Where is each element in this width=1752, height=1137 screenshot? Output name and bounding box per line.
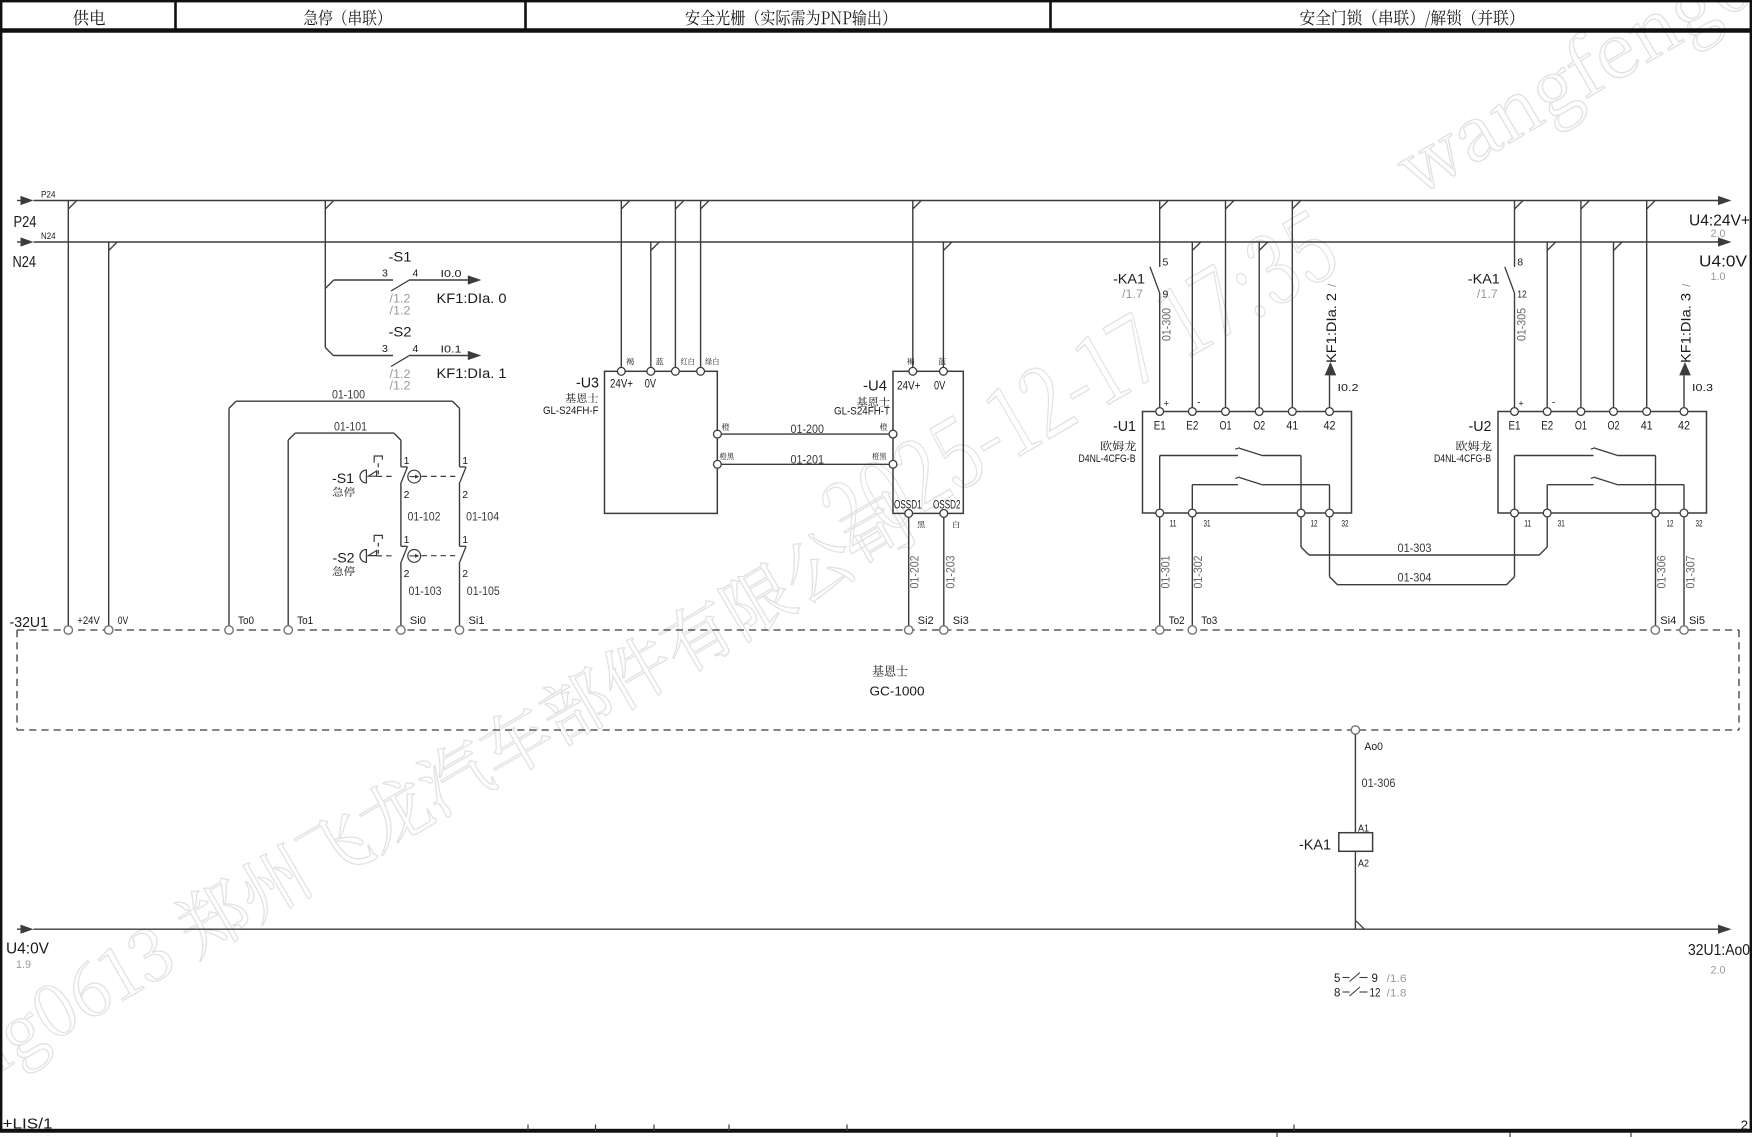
terminal Si1 [455,615,484,634]
switch S1 e-stop contact ch1 (1-2) [401,455,410,501]
node footer location +LIS/1 [3,1117,53,1133]
svg-text:01-102: 01-102 [408,510,441,524]
terminal +24V [64,615,100,634]
wire S1 aux row [325,280,393,289]
svg-text:1: 1 [462,534,468,546]
pin U1 E2 [1186,396,1201,432]
node KF1:DIa.3 arrow I0.3 [1678,283,1714,408]
wire 01-200 [721,422,889,436]
switch S1 aux contact 3-4 [382,249,419,292]
label U4 pin names [897,381,946,393]
svg-text:-S2: -S2 [333,549,355,565]
svg-text:01-304: 01-304 [1398,571,1432,585]
label U4 type GL-S24FH-T [834,405,890,417]
pin U4 orange [889,430,897,438]
svg-text:12: 12 [1517,289,1527,301]
wire N24 supply rail [34,241,1719,243]
door lock U1 body [1143,412,1352,514]
wire 01-104 [460,484,500,546]
terminal To3 [1188,615,1217,634]
svg-text:01-103: 01-103 [409,584,442,598]
svg-text:A1: A1 [1358,823,1369,835]
wire KA1 contact riser U2 from P24 [1515,201,1524,267]
svg-text:-: - [1552,396,1556,408]
wire U3 green-white feeder from P24 [701,201,710,368]
svg-text:-S2: -S2 [389,324,412,340]
wire 0V return rail [34,928,1719,930]
svg-text:N24: N24 [41,231,56,242]
pin U1 31 [1188,509,1210,528]
terminal To0 [225,615,254,634]
svg-text:01-101: 01-101 [334,419,367,433]
pin U2 11 [1511,509,1532,528]
svg-text:-U1: -U1 [1113,419,1136,435]
svg-text:P24: P24 [41,190,56,201]
svg-text:0V: 0V [118,615,129,627]
wire U2 41 feeder from P24 [1647,201,1656,408]
svg-text:KF1:DIa. 3: KF1:DIa. 3 [1678,293,1694,363]
svg-text:To1: To1 [297,615,313,627]
svg-text:2: 2 [1741,1118,1748,1133]
label U3 designator [576,375,599,391]
wire 01-306 Ao0 to coil A1 [1355,734,1395,833]
pin U2 31 [1543,509,1564,528]
svg-text:-S1: -S1 [389,249,412,265]
svg-text:5: 5 [1334,973,1340,985]
svg-text:1: 1 [404,455,410,467]
wire S2 aux row [333,355,393,357]
svg-text:42: 42 [1678,419,1690,433]
svg-text:-KA1: -KA1 [1113,270,1145,286]
svg-text:-S1: -S1 [332,470,354,486]
svg-text:41: 41 [1641,419,1653,433]
wire 01-102 [401,484,441,546]
terminal Si4 [1651,615,1676,634]
label U2 designator [1469,419,1492,435]
svg-text:42: 42 [1324,419,1336,433]
svg-text:/1.7: /1.7 [1122,289,1143,301]
wire U3 red-white feeder from P24 [675,201,684,368]
svg-text:01-300: 01-300 [1160,308,1174,341]
svg-text:01-202: 01-202 [908,555,922,588]
wire 01-203 [944,517,958,626]
node I0.0 arrow to KF1:DIa.0 [390,268,507,317]
pin U1 12 [1297,509,1317,528]
switch S2 e-stop contact ch2 (1-2) [459,534,468,580]
svg-text:01-306: 01-306 [1654,555,1668,588]
svg-text:N24: N24 [13,254,37,271]
svg-text:9: 9 [1163,289,1169,301]
svg-text:/1.2: /1.2 [390,305,411,317]
svg-text:2: 2 [404,489,410,501]
switch U2 internal contact 11-12 [1515,448,1656,509]
svg-text:/1.2: /1.2 [390,381,411,393]
svg-text:KF1:DIa. 1: KF1:DIa. 1 [437,365,507,381]
svg-text:-U3: -U3 [576,375,599,391]
svg-text:Si4: Si4 [1660,615,1676,627]
pin U2 42 [1678,408,1690,433]
pin U4 OSSD2 [940,510,948,518]
svg-text:1: 1 [404,534,410,546]
svg-text:3: 3 [382,268,388,280]
svg-text:To0: To0 [238,615,254,627]
svg-text:E1: E1 [1154,419,1166,433]
svg-text:2: 2 [462,568,468,580]
pin U3 orange-black [714,460,722,468]
pin U4 brown 24V+ [909,367,917,375]
border bottom line with cell ticks [0,1125,1752,1137]
node S2 mechanical link symbol [408,550,455,563]
node header title 安全光栅（实际需为PNP输出） [686,9,888,25]
pin U4 orange-black [889,460,897,468]
svg-text:OSSD2: OSSD2 [933,500,961,512]
svg-text:GL-S24FH-T: GL-S24FH-T [834,405,890,417]
terminal Si5 [1680,615,1705,634]
pin U1 42 [1324,408,1336,433]
wire 01-105 [460,564,501,626]
wire 01-202 [908,517,922,626]
wire U1 O1 feeder from P24 [1226,201,1235,408]
svg-text:01-301: 01-301 [1159,555,1173,588]
pin U3 red-white [672,367,680,375]
component S2 e-stop operator [333,535,395,565]
svg-text:O2: O2 [1608,419,1620,433]
svg-text:1: 1 [462,455,468,467]
svg-text:D4NL-4CFG-B: D4NL-4CFG-B [1434,453,1491,465]
svg-text:24V+: 24V+ [610,378,633,390]
svg-text:/1.7: /1.7 [1477,289,1498,301]
label U2 type D4NL-4CFG-B [1434,453,1491,465]
wire U2 O1 feeder from P24 [1581,201,1590,408]
svg-text:Si5: Si5 [1689,615,1705,627]
svg-text:I0.1: I0.1 [441,344,462,356]
wire 01-100 [229,388,460,626]
wire U1 E2 feeder from N24 [1192,242,1201,408]
switch S1 e-stop contact ch2 (1-2) [459,455,468,501]
wire 0V feeder from N24 [109,242,118,626]
svg-text:O2: O2 [1253,419,1265,433]
label 32U1 device name 基恩士 GC-1000 [872,665,907,676]
wire 01-103 [401,564,442,626]
svg-text:To3: To3 [1201,615,1217,627]
wire U4 brown feeder from P24 [913,201,922,368]
pin U1 11 [1156,509,1177,528]
wire S2 to I0.1 [409,355,469,357]
label U1 designator [1113,419,1136,435]
label U3 pin wire colors [626,358,634,365]
node rail exit U4:24V+ [1689,196,1750,240]
svg-text:4: 4 [413,268,419,280]
svg-text:O1: O1 [1220,419,1232,433]
node I0.1 arrow to KF1:DIa.1 [390,344,507,393]
node header title 安全门锁（串联）/解锁（并联） [1300,9,1514,27]
pin U3 brown 24V+ [617,367,625,375]
wire 01-301 [1159,517,1173,626]
svg-text:41: 41 [1286,419,1298,433]
node header title 急停（串联） [304,9,382,25]
svg-text:1.9: 1.9 [16,959,31,971]
svg-text:E2: E2 [1186,419,1198,433]
wire U3 brown feeder from P24 [621,201,630,368]
switch S2 aux contact 3-4 [382,324,419,367]
node KF1:DIa.2 arrow I0.2 [1323,283,1359,408]
wire 01-302 [1191,517,1205,626]
svg-text:/1.6: /1.6 [1387,973,1407,985]
wire KA1 contact riser U1 from P24 [1160,201,1169,267]
svg-text:2: 2 [404,568,410,580]
svg-text:0V: 0V [934,381,946,393]
pin U3 green-white [697,367,705,375]
svg-text:24V+: 24V+ [897,381,921,393]
svg-text:Si0: Si0 [410,615,426,627]
wire 01-307 to Si5 [1684,517,1698,626]
svg-text:31: 31 [1558,519,1565,529]
svg-text:3: 3 [382,343,388,355]
pin U2 O2 [1608,408,1620,433]
svg-text:01-200: 01-200 [791,422,825,436]
svg-text:31: 31 [1204,519,1211,529]
svg-text:12: 12 [1311,519,1318,529]
svg-text:GC-1000: GC-1000 [870,684,925,699]
switch U1 internal contact 31-32 [1192,477,1329,509]
terminal To2 [1156,615,1185,634]
terminal Ao0 [1351,726,1383,753]
svg-text:/1.2: /1.2 [390,369,411,381]
svg-text:01-105: 01-105 [467,584,500,598]
switch S2 e-stop contact ch1 (1-2) [401,534,410,580]
wire U4 blue feeder from N24 [943,242,952,367]
door lock U2 body [1498,412,1707,514]
wire U1 41 feeder from P24 [1292,201,1301,408]
svg-text:Ao0: Ao0 [1364,741,1383,753]
svg-text:-32U1: -32U1 [10,615,49,631]
svg-text:32: 32 [1342,519,1349,529]
svg-text:KF1:DIa. 2: KF1:DIa. 2 [1323,293,1339,363]
svg-text:-: - [1197,396,1201,408]
node N24 source arrow [13,231,56,271]
node rail entry U4:0V bottom [6,925,50,971]
svg-text:01-203: 01-203 [944,555,958,588]
svg-text:I0.2: I0.2 [1338,382,1359,394]
node rail exit U4:0V [1699,237,1748,283]
terminal Si3 [940,615,969,634]
svg-text:4: 4 [413,343,419,355]
wire 01-304 [1330,517,1515,585]
svg-text:E2: E2 [1541,419,1553,433]
wire S1 to I0.0 [409,279,469,281]
svg-text:12: 12 [1667,519,1674,529]
border header underline [0,28,1752,33]
switch KA1 NO contact 5-9 [1113,257,1174,408]
svg-text:01-104: 01-104 [466,510,499,524]
svg-text:U4:0V: U4:0V [6,941,50,958]
pin U1 O1 [1220,408,1232,433]
svg-text:2.0: 2.0 [1711,965,1726,977]
pin U4 OSSD1 [905,510,913,518]
pin U2 32 [1680,509,1702,528]
svg-text:P24: P24 [14,214,37,231]
svg-text:To2: To2 [1169,615,1185,627]
wire +24V feeder from P24 [68,201,77,626]
node KA1 cross-reference contact 8-12 [1334,987,1407,1000]
svg-text:-KA1: -KA1 [1468,270,1500,286]
svg-text:-U2: -U2 [1469,419,1492,435]
node KA1 cross-reference contact 5-9 [1334,973,1407,986]
plc-box 32U1 dashed outline [17,630,1739,730]
light curtain U4 body [893,371,963,513]
svg-text:KF1:DIa. 0: KF1:DIa. 0 [437,290,507,306]
svg-text:/1.8: /1.8 [1387,988,1407,1000]
pin U2 12 [1652,509,1674,528]
wire 01-101 [288,419,401,625]
svg-text:D4NL-4CFG-B: D4NL-4CFG-B [1079,453,1136,465]
svg-text:01-201: 01-201 [791,452,825,466]
component S1 e-stop operator [332,456,395,486]
svg-text:/1.2: /1.2 [390,294,411,306]
switch KA1 NO contact 8-12 [1468,257,1529,408]
light curtain U3 body [605,371,718,513]
relay coil KA1 [1299,823,1373,870]
svg-text:11: 11 [1170,519,1177,529]
svg-text:+LIS/1: +LIS/1 [3,1117,53,1133]
svg-text:A2: A2 [1358,858,1369,870]
terminal To1 [284,615,313,634]
wire U2 O2 feeder from N24 [1614,242,1623,408]
decor watermark [0,487,926,1137]
svg-text:01-100: 01-100 [332,388,365,402]
svg-text:8: 8 [1334,988,1340,1000]
label U3 pin names [610,378,656,390]
node P24 source arrow [14,190,56,232]
svg-text:12: 12 [1370,988,1381,1000]
svg-text:01-303: 01-303 [1398,541,1432,555]
svg-text:Si1: Si1 [469,615,485,627]
svg-text:01-307: 01-307 [1684,555,1698,588]
svg-text:GL-S24FH-F: GL-S24FH-F [543,405,599,417]
svg-text:-U4: -U4 [863,379,887,395]
terminal Si0 [397,615,426,634]
node S1 mechanical link symbol [408,470,455,483]
label 32U1 designator [10,615,49,631]
svg-text:I0.0: I0.0 [441,268,462,280]
wire 01-201 [721,452,889,466]
pin U1 O2 [1253,408,1265,433]
node rail exit 32U1:Ao0 [1688,925,1750,977]
svg-text:0V: 0V [645,378,657,390]
svg-text:01-306: 01-306 [1362,776,1396,790]
svg-text:2: 2 [462,489,468,501]
svg-text:U4:0V: U4:0V [1699,254,1748,271]
svg-text:O1: O1 [1575,419,1587,433]
pin U3 orange [714,430,722,438]
wire U3 blue feeder from N24 [651,242,660,367]
svg-text:01-305: 01-305 [1514,308,1528,341]
wire P24 supply rail [34,200,1719,202]
svg-text:-KA1: -KA1 [1299,838,1331,854]
pin U1 41 [1286,408,1298,433]
pin U2 O1 [1575,408,1587,433]
label U4 OSSD pins [894,500,961,512]
svg-text:+: + [1518,398,1524,409]
terminal Si2 [905,615,934,634]
wire U1 O2 feeder from N24 [1259,242,1268,408]
pin U1 E1 [1154,398,1170,432]
pin U3 blue 0V [647,367,655,375]
terminal 0V [105,615,129,634]
svg-text:1.0: 1.0 [1711,271,1726,283]
pin U1 32 [1326,509,1349,528]
label U4 designator [863,379,887,395]
node header title 供电 [73,10,105,26]
wire 01-303 [1301,517,1547,555]
pin U2 41 [1641,408,1653,433]
svg-text:11: 11 [1524,519,1531,529]
svg-text:Si2: Si2 [918,615,934,627]
label U1 type D4NL-4CFG-B [1079,453,1136,465]
wire coil A2 to 0V rail [1355,851,1364,929]
svg-text:32U1:Ao0: 32U1:Ao0 [1688,942,1750,959]
svg-text:Si3: Si3 [953,615,969,627]
wire U2 E2 feeder from N24 [1547,242,1556,408]
border header separators [176,2,1051,29]
svg-text:01-302: 01-302 [1191,555,1205,588]
svg-text:5: 5 [1163,257,1169,269]
pin U2 E2 [1541,396,1556,432]
svg-text:8: 8 [1517,257,1523,269]
node footer page number 2 [1741,1118,1748,1133]
switch U1 internal contact 11-12 [1160,448,1301,509]
svg-text:E1: E1 [1509,419,1521,433]
svg-text:+: + [1164,398,1170,409]
svg-text:I0.3: I0.3 [1692,382,1713,394]
wire S-branch riser from P24 [325,201,334,356]
svg-text:9: 9 [1372,973,1378,985]
pin U4 blue 0V [940,367,948,375]
svg-text:32: 32 [1696,519,1703,529]
svg-text:+24V: +24V [77,615,100,627]
pin U2 E1 [1509,398,1525,432]
wire 01-306 to Si4 [1654,517,1668,626]
label U3 type GL-S24FH-F [543,405,599,417]
switch U2 internal contact 31-32 [1547,477,1684,509]
